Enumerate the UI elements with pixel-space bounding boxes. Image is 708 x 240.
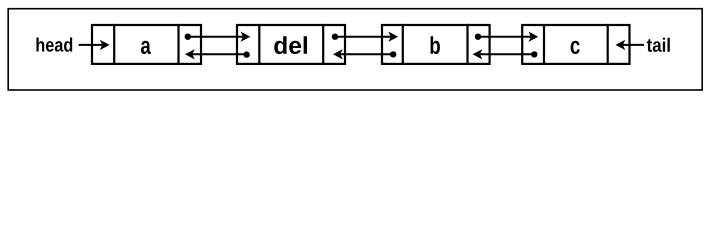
node c prev pointer dot xyxy=(531,51,537,57)
head arrow wire xyxy=(79,44,104,46)
wire a.next to del xyxy=(188,36,245,38)
head label xyxy=(36,38,72,52)
node a next-cell separator xyxy=(177,24,179,65)
wire del.next to b xyxy=(335,36,392,38)
arrowhead b.prev xyxy=(333,49,343,59)
node b prev-cell separator xyxy=(402,24,404,65)
wire b.prev to del xyxy=(339,53,393,55)
node c prev-cell separator xyxy=(543,24,545,65)
arrowhead del.prev xyxy=(185,49,195,59)
node del label xyxy=(274,36,307,54)
wire b.next to c xyxy=(478,36,532,38)
head arrowhead xyxy=(100,40,110,50)
node c label xyxy=(571,41,580,54)
wire del.prev to a xyxy=(191,53,247,55)
node a label xyxy=(141,41,151,54)
tail arrowhead xyxy=(616,40,626,50)
node b prev pointer dot xyxy=(390,51,396,57)
node b next pointer dot xyxy=(475,34,481,40)
tail label xyxy=(647,38,670,52)
node del prev pointer dot xyxy=(243,51,249,57)
node a prev-cell separator xyxy=(113,24,115,65)
node del box xyxy=(237,25,345,64)
arrowhead b.next xyxy=(528,32,538,42)
arrowhead c.prev xyxy=(473,49,483,59)
node c next-cell separator xyxy=(607,24,609,65)
node b label xyxy=(431,36,440,54)
node del next pointer dot xyxy=(332,34,338,40)
node c box xyxy=(522,25,629,64)
arrowhead del.next xyxy=(388,32,398,42)
tail arrow wire xyxy=(622,44,645,46)
node del next-cell separator xyxy=(322,24,324,65)
node b next-cell separator xyxy=(466,24,468,65)
outer frame xyxy=(8,9,702,90)
wire c.prev to b xyxy=(479,53,535,55)
node a box xyxy=(92,25,201,64)
node del prev-cell separator xyxy=(258,24,260,65)
arrowhead a.next xyxy=(241,32,251,42)
node a next pointer dot xyxy=(185,34,191,40)
node b box xyxy=(382,25,490,64)
